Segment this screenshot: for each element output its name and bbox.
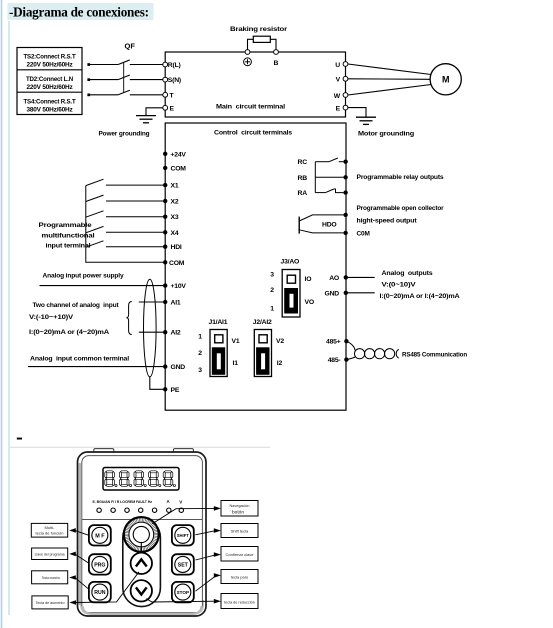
jumper J1/AI1 block [210,330,227,377]
svg-text:1: 1 [270,306,274,313]
breaker mechanical link [123,62,125,92]
callout box MF [31,523,89,537]
bezel bottom gray strip [83,606,202,614]
svg-text:multifunctional: multifunctional [42,232,95,239]
wire V to motor [348,78,430,81]
svg-text:485-: 485- [328,357,341,364]
motor M [430,64,461,95]
svg-text:AO: AO [329,275,339,282]
terminal AO [344,275,348,279]
up arrow button [131,553,152,574]
terminal HDO [343,213,347,217]
svg-text:Llave del programa: Llave del programa [35,552,66,556]
svg-text:Control circuit terminals: Control circuit terminals [214,130,293,137]
wire AI1 [139,301,163,303]
svg-text:input terminal: input terminal [46,243,91,250]
terminal X2 [163,199,167,203]
seven segment digits [105,471,117,487]
callout box knob [152,501,258,524]
button RUN [89,582,111,602]
svg-text:220V 50Hz/60Hz: 220V 50Hz/60Hz [27,62,74,69]
button MF [89,525,111,545]
svg-text:Motor grounding: Motor grounding [358,131,414,138]
switch X4 [86,226,163,232]
terminal HDI [163,245,167,249]
svg-text:TS4:Connect R.S.T: TS4:Connect R.S.T [24,99,77,106]
svg-text:V2: V2 [276,338,284,345]
svg-text:Analog input common terminal: Analog input common terminal [30,356,129,363]
relay terminal RB [343,175,347,179]
svg-text:STOP: STOP [177,590,189,595]
keypad bezel bottom shading [80,600,204,615]
svg-text:GND: GND [171,364,186,371]
multifunctional input label [39,222,95,250]
switch X1 [86,179,163,185]
keypad panel inner face [82,456,203,613]
svg-text:Tecla de aumento: Tecla de aumento [36,601,65,605]
down arrow button [131,580,152,601]
terminal 485+ [344,339,348,343]
svg-text:Analog outputs: Analog outputs [382,270,434,277]
svg-text:Programmable relay outputs: Programmable relay outputs [357,174,445,181]
svg-text:Two channel of analog input: Two channel of analog input [33,302,120,309]
switch X2 [86,195,163,201]
twisted pair symbol [346,341,398,359]
svg-text:COM: COM [171,165,187,172]
svg-text:U: U [335,62,340,69]
svg-text:GND: GND [324,290,339,297]
svg-text:3: 3 [270,272,274,279]
svg-text:QF: QF [125,42,136,51]
wire E to motor ground [348,108,366,117]
terminal COM upper [163,166,167,170]
svg-text:220V 50Hz/60Hz: 220V 50Hz/60Hz [27,84,74,91]
supply options box [17,48,82,115]
terminal +10V [163,283,167,287]
svg-text:tecla de función: tecla de función [36,532,64,536]
svg-text:E: E [170,106,175,113]
input switch common bus [86,186,163,263]
svg-text:I:(0~20)mA or (4~20)mA: I:(0~20)mA or (4~20)mA [29,329,110,336]
svg-text:AI1: AI1 [171,300,181,307]
svg-text:X3: X3 [171,214,179,221]
svg-text:TD2:Connect L.N: TD2:Connect L.N [26,76,73,83]
wire U to motor [348,64,431,75]
J3 pin numbers [270,272,274,313]
svg-text:M F: M F [95,533,105,539]
svg-text:+10V: +10V [171,283,187,290]
svg-text:X1: X1 [171,183,179,190]
terminal U [343,62,348,67]
svg-text:IO: IO [305,276,312,283]
svg-text:380V 50Hz/60Hz: 380V 50Hz/60Hz [27,107,74,114]
shield ellipse [144,279,157,377]
terminal R(L) [163,62,168,67]
svg-text:W: W [334,93,341,100]
svg-text:SHIFT: SHIFT [177,533,190,538]
svg-text:Programmable: Programmable [39,222,93,229]
svg-text:-Diagrama de conexiones:: -Diagrama de conexiones: [9,5,149,20]
keypad panel outer [78,452,207,616]
svg-text:Power grounding: Power grounding [99,131,150,138]
callout box PRG [32,548,89,563]
terminal AI2 [163,330,167,334]
svg-text:RB: RB [298,175,308,182]
faint cell line [10,446,270,448]
svg-text:Confirmar clave: Confirmar clave [225,552,254,557]
svg-text:M: M [442,75,450,85]
terminal S(N) [163,77,168,82]
svg-text:RC: RC [298,159,308,166]
svg-text:Multi-: Multi- [45,526,56,530]
button SET [172,554,194,574]
page left border line [1,0,3,628]
P+ circle-plus symbol [244,58,252,66]
terminal X3 [163,215,167,219]
svg-text:B: B [274,60,279,67]
callout box up key [32,572,139,609]
svg-text:RS485 Communication: RS485 Communication [402,352,467,359]
callout box down key [146,594,258,609]
svg-text:J2/AI2: J2/AI2 [253,319,272,326]
terminal V [343,76,348,81]
svg-text:Navegación: Navegación [229,504,249,508]
svg-text:PRG: PRG [94,562,105,568]
analog input annotation [29,302,119,336]
svg-text:1: 1 [198,333,202,340]
terminal COM lower [163,260,167,264]
terminal T [163,92,168,97]
breaker QF pole T [87,90,162,96]
supply box labels [24,54,77,114]
svg-text:Programmable open collector: Programmable open collector [357,205,445,212]
wire E to power ground [146,108,163,115]
switch HDI [86,241,163,247]
jumper J3/AO block [282,270,300,318]
wire GND stub [346,292,375,294]
brake terminal P+ [245,50,250,55]
brace [126,302,131,335]
terminal 485- [344,357,348,361]
svg-text:Tecla marcha: Tecla marcha [42,576,61,580]
terminal AI1 [163,300,167,304]
switch X3 [86,211,163,217]
display window [103,468,179,491]
wire AO stub [346,276,375,278]
breaker QF pole R [87,60,162,66]
svg-text:C0M: C0M [357,230,370,237]
svg-text:3: 3 [198,367,202,374]
button STOP [172,582,194,602]
wire GND [28,366,163,368]
svg-text:J3/AO: J3/AO [281,258,300,265]
svg-text:hight-speed output: hight-speed output [357,217,418,224]
svg-text:2: 2 [270,287,274,294]
svg-text:HDO: HDO [322,221,337,228]
braking resistor wires [248,39,254,49]
svg-text:E. BGU/AN F/ I R LOCREM FAULT: E. BGU/AN F/ I R LOCREM FAULT Hz [93,500,153,504]
svg-text:R(L): R(L) [168,62,181,69]
main circuit terminal box [165,52,345,117]
svg-text:X4: X4 [171,230,179,237]
svg-text:+24V: +24V [171,151,187,158]
terminal COM right [343,231,347,235]
svg-text:2: 2 [198,350,202,357]
breaker QF pole S [87,75,162,81]
wire +10V [40,285,164,287]
svg-text:tecla de reducción: tecla de reducción [224,600,255,604]
navigation knob [124,517,159,552]
wire shield to PE [150,377,163,390]
svg-text:I1: I1 [233,360,239,367]
wire W to motor [348,85,431,96]
callout box STOP [195,570,258,592]
callout box SET [195,547,258,562]
braking resistor [253,36,270,42]
svg-text:HDI: HDI [171,244,182,251]
svg-text:I:(0~20)mA or I:(4~20)mA: I:(0~20)mA or I:(4~20)mA [380,293,460,300]
svg-text:RUN: RUN [94,590,105,596]
relay contact symbol [315,158,343,193]
jumper J2/AI2 block [254,330,271,377]
motor ground symbol [356,117,376,124]
power ground symbol [136,116,156,123]
indicator LEDs [97,508,184,512]
svg-text:V: V [336,77,341,84]
svg-text:X2: X2 [171,199,179,206]
stadium around knob and arrows [123,519,161,607]
svg-text:VO: VO [305,299,314,306]
callout box RUN [32,571,89,590]
terminal GND right [344,291,348,295]
relay terminal RA [343,190,347,194]
wire AI2 [139,331,163,333]
svg-text:Analog input power supply: Analog input power supply [43,273,125,280]
terminal X1 [163,183,167,187]
panel section separator [82,519,202,521]
relay terminal RC [343,160,347,164]
brake terminal B [274,50,279,55]
open collector symbol [299,215,343,234]
svg-text:485+: 485+ [326,339,341,346]
svg-text:AI2: AI2 [171,330,181,337]
analog outputs annotation [380,270,460,300]
svg-text:V:(0~10)V: V:(0~10)V [382,282,417,289]
table cell left border line [8,21,10,615]
terminal W [343,93,348,98]
svg-text:tecla paro: tecla paro [231,575,249,580]
bezel left gray strip [79,463,82,605]
svg-text:TS2:Connect R.S.T: TS2:Connect R.S.T [24,54,77,61]
svg-text:RA: RA [298,190,308,197]
open collector annotation [357,205,445,238]
terminal PE [163,387,167,391]
terminal E right [343,105,348,110]
svg-text:Shift tecla: Shift tecla [231,529,249,534]
title highlight [8,3,154,20]
separator dash [17,438,22,440]
terminal E left [163,105,168,110]
svg-text:V1: V1 [232,338,240,345]
svg-text:E: E [336,105,341,112]
svg-text:Main circuit terminal: Main circuit terminal [216,104,285,111]
terminal +24V [163,152,167,156]
svg-text:PE: PE [171,387,180,394]
svg-text:botón: botón [232,509,244,515]
svg-text:I2: I2 [277,360,283,367]
svg-text:J1/AI1: J1/AI1 [209,319,228,326]
button SHIFT [172,525,194,545]
keypad panel tabs [94,449,114,454]
svg-text:COM: COM [169,260,185,267]
terminal X4 [163,230,167,234]
J1 pin numbers [198,333,202,374]
svg-text:V:(-10~+10)V: V:(-10~+10)V [29,314,74,321]
callout box SHIFT [195,524,258,538]
terminal GND left [163,364,167,368]
svg-text:SET: SET [178,562,189,568]
svg-text:Braking resistor: Braking resistor [230,26,288,33]
button PRG [89,554,111,574]
svg-text:S(N): S(N) [168,77,181,84]
control circuit terminals box [165,123,346,410]
